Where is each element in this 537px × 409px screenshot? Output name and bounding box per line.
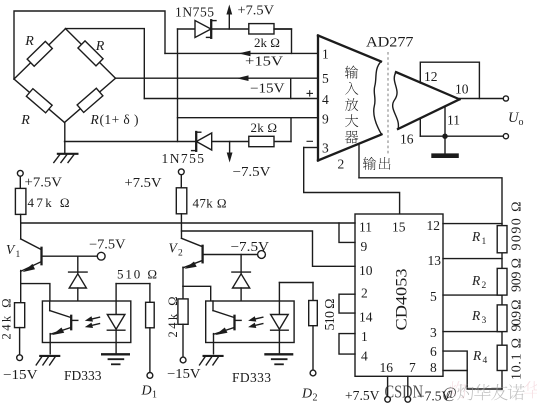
wire resistor chain <box>501 226 503 389</box>
svg-text:1: 1 <box>16 250 21 260</box>
op-amp output stage small triangle <box>396 72 460 99</box>
ground bar at output <box>444 136 446 153</box>
svg-text:D: D <box>141 384 152 399</box>
svg-text:2: 2 <box>178 249 183 259</box>
svg-text:2k Ω: 2k Ω <box>251 120 278 135</box>
svg-text:10: 10 <box>359 263 373 278</box>
svg-text:R: R <box>24 34 34 49</box>
V2 emitter with arrow <box>183 261 202 268</box>
wire row2 pin1 row <box>165 52 318 54</box>
terminal output top <box>503 96 508 101</box>
terminal +7.5V V1 <box>17 170 23 176</box>
terminal output bottom <box>503 134 508 139</box>
wire pin13 stub <box>443 258 502 260</box>
svg-text:9: 9 <box>322 112 329 127</box>
wire pin5 to pin4 jog <box>290 78 292 98</box>
FD333 V1 LED <box>115 284 117 315</box>
svg-text:3: 3 <box>482 316 487 326</box>
svg-text:16: 16 <box>400 132 414 147</box>
svg-text:510 Ω: 510 Ω <box>117 267 157 282</box>
svg-text:2k Ω: 2k Ω <box>254 35 280 50</box>
svg-text:909 Ω: 909 Ω <box>510 258 525 292</box>
label + at pin4 <box>307 90 314 96</box>
resistor R1 <box>497 226 507 253</box>
resistor 2k ohm bottom <box>249 136 274 146</box>
svg-text:11: 11 <box>359 220 372 235</box>
svg-text:+15V: +15V <box>245 54 283 69</box>
svg-text:2: 2 <box>361 286 368 301</box>
pin 3 row <box>304 147 318 149</box>
terminal -7.5V under CD4053 <box>405 397 411 403</box>
svg-text:−15V: −15V <box>250 81 285 96</box>
wire pin16 to +7.5V <box>387 376 389 396</box>
svg-text:R: R <box>471 273 481 288</box>
svg-text:90.9 Ω: 90.9 Ω <box>510 300 525 332</box>
op-amp U1 AD277 input amplifier big triangle <box>317 36 319 161</box>
svg-text:−7.5V: −7.5V <box>89 237 126 252</box>
label minus at pin3 <box>307 140 314 142</box>
svg-text:6: 6 <box>430 344 437 359</box>
svg-text:4: 4 <box>361 349 368 364</box>
svg-text:47k Ω: 47k Ω <box>193 196 227 211</box>
svg-text:2: 2 <box>482 281 487 291</box>
wire pin2 output to resistor chain <box>359 178 502 226</box>
pin 2 stub <box>358 144 360 178</box>
svg-text:1: 1 <box>482 237 487 247</box>
resistor R3 <box>497 305 507 332</box>
wire pin6 stub <box>443 351 502 389</box>
wire row1 zener row left vertical Q <box>177 29 179 142</box>
resistor 24k V2 <box>178 299 188 324</box>
wire pin3 node to CD4053 pin15 <box>304 148 400 215</box>
wire V1 emitter to 24k and FD333 <box>21 284 50 301</box>
svg-text:−7.5V: −7.5V <box>233 164 271 179</box>
wire bracket pins 1-4 <box>339 334 355 355</box>
FD333 V2 LED <box>278 283 280 316</box>
wire V1 collector row to pin11 <box>21 222 355 224</box>
svg-text:12: 12 <box>427 218 441 233</box>
svg-text:FD333: FD333 <box>64 368 102 383</box>
resistor R2 <box>497 268 507 295</box>
ground earth FD333 V2 <box>264 353 293 355</box>
svg-text:(1+ δ ): (1+ δ ) <box>100 112 139 127</box>
supply arrow +7.5V on row1 <box>228 12 230 29</box>
wire bridge bottom vertex down <box>64 123 66 154</box>
V1 emitter with arrow <box>21 262 41 271</box>
svg-text:+7.5V: +7.5V <box>345 388 380 403</box>
wire pin3 stub <box>443 331 502 333</box>
resistor 47k V2 <box>176 188 187 214</box>
watermark pink ghost <box>449 381 466 398</box>
wire pin8 stub <box>443 370 467 372</box>
resistor 24k V1 <box>15 303 25 328</box>
wire jog to pin9 <box>339 223 355 242</box>
svg-text:2: 2 <box>338 157 345 172</box>
svg-text:24k Ω: 24k Ω <box>0 299 14 340</box>
wire V2 collector row to pin10 <box>182 231 356 266</box>
resistor R bottom-left bridge arm <box>14 79 65 123</box>
wire pin12 stub <box>443 223 502 225</box>
resistor 47k V1 <box>15 188 26 214</box>
svg-text:4: 4 <box>483 356 488 366</box>
wire row6 up to row5 <box>290 118 292 142</box>
svg-text:D: D <box>301 387 312 402</box>
resistor R(1+delta) bottom-right bridge arm <box>65 78 116 122</box>
ground chassis at bridge bottom <box>57 153 79 155</box>
resistor R4 <box>497 345 507 370</box>
terminal -15V V2 <box>180 357 186 363</box>
wire bridge right vertex to pin5 row <box>116 77 318 79</box>
svg-text:1: 1 <box>361 329 368 344</box>
svg-text:@: @ <box>443 385 457 402</box>
svg-text:+7.5V: +7.5V <box>25 175 63 190</box>
supply arrow -15V on row3 <box>237 75 249 81</box>
terminal +7.5V V2 <box>178 169 184 175</box>
svg-text:9: 9 <box>361 239 368 254</box>
terminal -15V V1 <box>17 355 23 361</box>
V2 base wire to -7.5V <box>204 254 258 256</box>
wire lower output line <box>420 135 503 137</box>
wire pin7 to -7.5V <box>407 376 409 396</box>
svg-text:−15V: −15V <box>167 366 201 381</box>
wire row6 bottom zener row <box>65 141 292 143</box>
wire row5 pin9 row <box>178 117 318 119</box>
svg-text:CSDN: CSDN <box>385 382 424 402</box>
pin 10 output wire <box>460 98 504 100</box>
supply arrow +15V on row2 <box>239 51 251 57</box>
svg-text:3: 3 <box>430 325 437 340</box>
svg-text:7: 7 <box>409 360 416 375</box>
svg-text:24k Ω: 24k Ω <box>166 297 180 338</box>
pin 11 stub <box>444 107 446 136</box>
svg-text:3: 3 <box>322 141 329 156</box>
resistor R top-left bridge arm <box>14 29 66 79</box>
svg-text:R: R <box>471 229 481 244</box>
svg-text:15: 15 <box>392 220 406 235</box>
supply arrow -7.5V on row6 <box>229 142 231 154</box>
node bridge top vertex wire to pin4 row <box>66 29 145 99</box>
svg-text:−15V: −15V <box>3 367 38 382</box>
wire bracket pins 2-14 <box>339 294 355 313</box>
diode zener 1N755 bottom <box>196 133 211 150</box>
junction dot <box>442 134 447 139</box>
svg-text:R: R <box>472 348 482 363</box>
resistor R top-right bridge arm <box>66 29 116 79</box>
svg-text:47k Ω: 47k Ω <box>28 195 70 210</box>
label output CJK <box>363 157 376 170</box>
terminal +7.5V under CD4053 <box>385 397 391 403</box>
svg-text:CD4053: CD4053 <box>394 269 411 331</box>
svg-text:10.1 Ω: 10.1 Ω <box>510 338 525 380</box>
svg-text:o: o <box>519 117 524 128</box>
svg-text:16: 16 <box>380 360 394 375</box>
pin 12 feedback loop <box>420 62 479 98</box>
wire row4 pin4 row <box>144 98 317 100</box>
svg-text:1: 1 <box>152 390 157 401</box>
svg-text:+7.5V: +7.5V <box>125 175 162 190</box>
terminal D1 <box>147 373 153 379</box>
svg-text:−7.5V: −7.5V <box>231 239 270 254</box>
V1 base wire to -7.5V <box>43 255 98 257</box>
FD333 V2 phototransistor <box>212 301 214 311</box>
ground chassis FD333 V2 <box>203 355 224 357</box>
svg-text:1N755: 1N755 <box>162 151 205 166</box>
resistor 2k ohm top <box>249 24 274 34</box>
resistor 510 V2 <box>279 282 313 284</box>
svg-text:R: R <box>90 112 100 127</box>
break dashed line <box>387 52 389 156</box>
optocoupler FD333 V2 box <box>206 301 294 343</box>
diode V2 base clamp <box>240 255 242 274</box>
diode V1 base clamp <box>77 256 79 273</box>
pin 16 stub <box>419 118 421 136</box>
optocoupler FD333 V1 box <box>42 301 130 343</box>
svg-text:5: 5 <box>430 289 437 304</box>
wire bridge top node to row2 (pin1 feed) <box>14 11 165 79</box>
terminal D2 <box>310 370 316 376</box>
wire V2 emitter to 24k and FD333 <box>183 286 211 301</box>
svg-text:R: R <box>20 113 30 128</box>
label input-amplifier CJK vertical <box>345 66 358 79</box>
svg-text:1: 1 <box>322 47 329 62</box>
transistor Q V2 <box>180 214 182 239</box>
svg-text:+7.5V: +7.5V <box>238 3 275 18</box>
svg-text:14: 14 <box>359 310 373 325</box>
svg-text:R: R <box>95 39 105 54</box>
wire pin5 stub <box>443 294 502 296</box>
svg-text:AD277: AD277 <box>366 35 414 51</box>
svg-text:R: R <box>471 308 481 323</box>
ground chassis FD333 V1 <box>39 355 60 357</box>
svg-text:5: 5 <box>322 71 329 86</box>
IC CD4053 box <box>355 214 443 376</box>
svg-text:FD333: FD333 <box>232 370 271 385</box>
svg-text:12: 12 <box>424 69 438 84</box>
FD333 V1 phototransistor <box>49 301 51 311</box>
resistor 510 V1 <box>116 283 150 285</box>
transistor Q V1 <box>20 223 22 239</box>
svg-text:1N755: 1N755 <box>175 5 214 20</box>
svg-text:10: 10 <box>455 82 469 97</box>
wire row1 right end down to row2 <box>274 29 292 53</box>
svg-text:8: 8 <box>430 360 437 375</box>
ground earth FD333 V1 <box>101 353 130 355</box>
svg-text:2: 2 <box>313 393 318 404</box>
wire row1 horizontal <box>178 28 292 30</box>
svg-text:510 Ω: 510 Ω <box>323 299 338 331</box>
FD333 V2 light arrows <box>252 317 263 320</box>
svg-text:13: 13 <box>428 253 442 268</box>
diode zener 1N755 top <box>195 21 211 38</box>
svg-text:4: 4 <box>322 92 329 107</box>
svg-text:11: 11 <box>447 113 460 128</box>
FD333 V1 light arrows <box>89 317 100 320</box>
